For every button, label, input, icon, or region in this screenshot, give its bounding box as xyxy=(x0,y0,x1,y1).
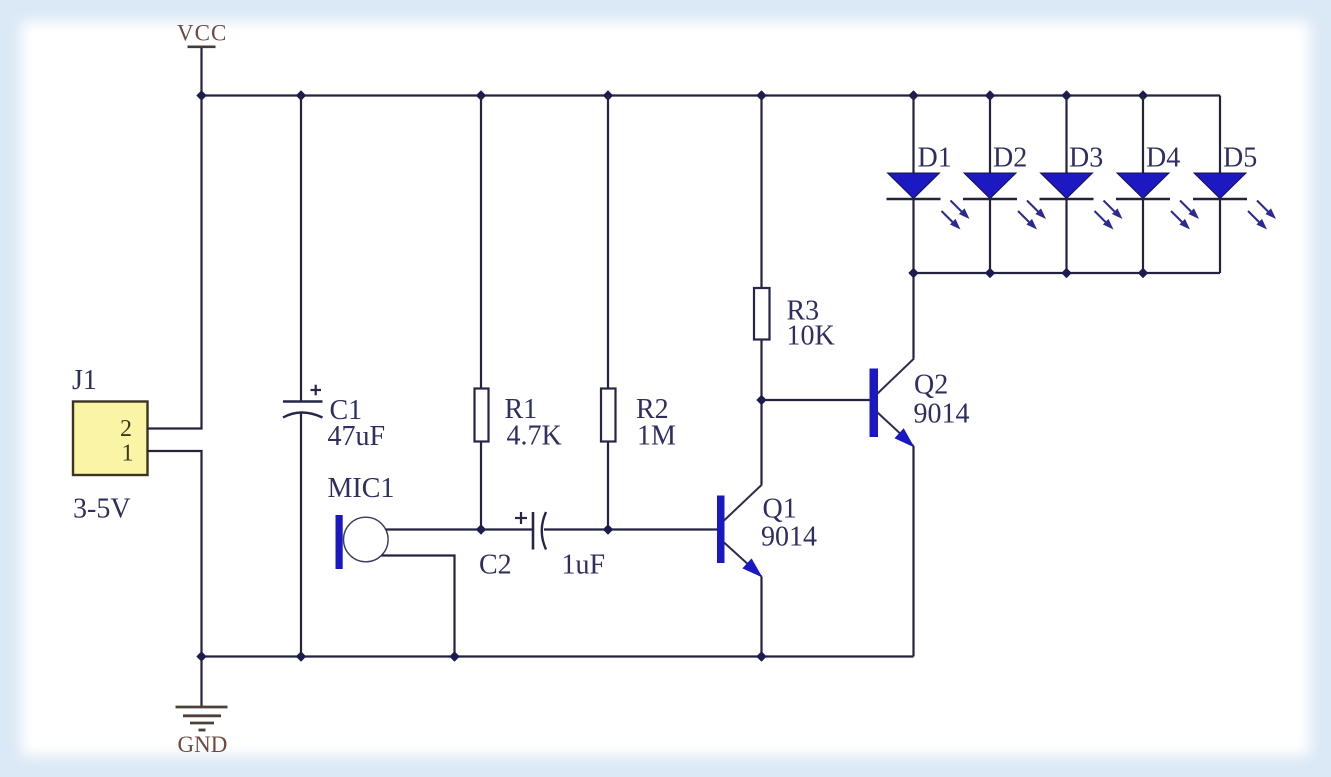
svg-text:10K: 10K xyxy=(787,321,835,352)
node ground rail at C1 xyxy=(296,651,306,661)
LED D5 xyxy=(1193,96,1276,274)
svg-text:1: 1 xyxy=(122,441,134,467)
svg-text:4.7K: 4.7K xyxy=(507,421,562,452)
svg-text:D4: D4 xyxy=(1146,143,1180,174)
node LED rail at D4 xyxy=(1138,268,1148,278)
wire C1 branch lower xyxy=(300,413,302,657)
node top rail at R2 xyxy=(603,90,613,100)
transistor Q2 xyxy=(870,359,970,448)
node top rail at R3 xyxy=(756,90,766,100)
node R2/C2 junction xyxy=(603,524,613,534)
wire R2 branch lower xyxy=(607,442,609,530)
wire R2 branch upper xyxy=(607,96,609,389)
svg-text:C2: C2 xyxy=(479,550,512,581)
capacitor C2 xyxy=(479,512,605,581)
wire J1 pin1 to ground rail xyxy=(148,451,202,657)
LED D3 xyxy=(1040,96,1123,274)
svg-text:D1: D1 xyxy=(918,143,952,174)
svg-text:3-5V: 3-5V xyxy=(73,494,131,525)
node LED rail at D1/Q2 xyxy=(908,268,918,278)
resistor R1 xyxy=(475,389,562,452)
LED D2 xyxy=(963,96,1046,274)
svg-text:1M: 1M xyxy=(637,421,676,452)
wire R1 branch lower xyxy=(480,442,482,530)
wire Q2 base xyxy=(762,399,870,401)
svg-text:Q2: Q2 xyxy=(914,370,948,401)
node top rail at C1 xyxy=(296,90,306,100)
wire top power rail xyxy=(202,94,1221,96)
wire Q1 emitter down xyxy=(760,577,762,657)
node R1/MIC junction xyxy=(476,524,486,534)
wire C2 to R2 node and Q1 base xyxy=(544,528,717,530)
wire MIC1 top terminal to R1 node xyxy=(386,528,481,530)
svg-text:D3: D3 xyxy=(1069,143,1103,174)
node top rail at R1 xyxy=(476,90,486,100)
node top rail at D2 xyxy=(985,90,995,100)
wire R3 branch upper xyxy=(760,96,762,289)
power symbol VCC xyxy=(177,21,227,96)
wire R1 branch upper xyxy=(480,96,482,389)
svg-text:9014: 9014 xyxy=(914,399,970,430)
wire Q2 emitter down to ground rail xyxy=(912,446,914,657)
node LED rail at D3 xyxy=(1061,268,1071,278)
svg-text:1uF: 1uF xyxy=(562,550,606,581)
wire J1 pin2 to VCC branch xyxy=(148,96,202,429)
svg-text:J1: J1 xyxy=(72,365,97,396)
ground xyxy=(176,657,228,758)
transistor Q1 xyxy=(717,485,817,578)
svg-text:VCC: VCC xyxy=(177,21,227,46)
node ground rail at J1 xyxy=(196,651,206,661)
node top rail at VCC xyxy=(196,90,206,100)
svg-text:9014: 9014 xyxy=(761,522,817,553)
wire R3 lower to Q2 base node xyxy=(760,340,762,401)
wire Q1 collector up xyxy=(760,400,762,485)
resistor R3 xyxy=(754,288,835,352)
node ground rail at MIC1 xyxy=(449,651,459,661)
node ground rail at Q1 xyxy=(756,651,766,661)
wire LED cathode rail xyxy=(914,272,1221,274)
svg-text:D2: D2 xyxy=(993,143,1027,174)
capacitor C1 xyxy=(283,385,385,452)
svg-text:D5: D5 xyxy=(1223,143,1257,174)
wire bottom ground rail xyxy=(202,655,914,657)
svg-text:GND: GND xyxy=(178,732,228,757)
wire Q2 collector up to LED rail xyxy=(912,273,914,359)
resistor R2 xyxy=(601,389,676,452)
LED D4 xyxy=(1116,96,1199,274)
node LED rail at D2 xyxy=(985,268,995,278)
microphone MIC1 xyxy=(328,473,395,569)
wire MIC1 bottom terminal to ground rail xyxy=(382,556,455,657)
node R3/Q1/Q2 junction xyxy=(756,395,766,405)
wire C1 branch upper xyxy=(300,96,302,402)
svg-text:2: 2 xyxy=(120,416,132,442)
node top rail at D3 xyxy=(1061,90,1071,100)
connector J1 xyxy=(72,365,148,475)
svg-text:Q1: Q1 xyxy=(763,494,797,525)
node top rail at D4 xyxy=(1138,90,1148,100)
svg-text:MIC1: MIC1 xyxy=(328,473,395,504)
svg-text:47uF: 47uF xyxy=(328,421,386,452)
wire R1 node to C2 xyxy=(481,528,533,530)
node top rail at D1 xyxy=(908,90,918,100)
LED D1 xyxy=(887,96,970,274)
